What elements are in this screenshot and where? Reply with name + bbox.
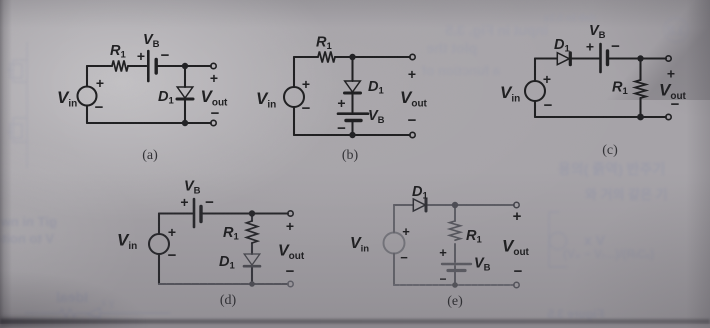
svg-text:+: + bbox=[586, 39, 594, 55]
wire bottom (a) bbox=[87, 122, 211, 124]
svg-text:−: − bbox=[286, 263, 295, 280]
svg-text:R1: R1 bbox=[466, 228, 482, 246]
svg-text:Vin: Vin bbox=[117, 231, 137, 253]
terminal top (c) bbox=[666, 56, 671, 61]
node top (c) bbox=[637, 55, 643, 61]
diode D1 (a) bbox=[177, 87, 193, 98]
resistor R1 (e) bbox=[450, 221, 461, 240]
svg-text:+: + bbox=[302, 76, 310, 92]
battery VB (a) bbox=[147, 51, 150, 81]
svg-text:Vout: Vout bbox=[659, 81, 687, 103]
terminal bottom (b) bbox=[410, 132, 415, 137]
terminal top (d) bbox=[288, 211, 293, 216]
node top (d) bbox=[249, 210, 255, 216]
svg-text:+: + bbox=[96, 75, 104, 91]
bleed text top-right mirrored bbox=[421, 13, 688, 78]
wire left rail (c) bbox=[534, 59, 536, 118]
svg-text:+: + bbox=[137, 48, 145, 64]
svg-text:+: + bbox=[439, 245, 447, 260]
svg-text:giT ni nwode: giT ni nwode bbox=[0, 214, 57, 229]
wire left rail (b) bbox=[293, 57, 295, 135]
svg-text:−: − bbox=[408, 112, 417, 129]
wire bottom (d) bbox=[159, 283, 288, 285]
svg-text:R1: R1 bbox=[612, 80, 628, 98]
svg-text:−: − bbox=[95, 99, 104, 116]
svg-text:D1: D1 bbox=[368, 79, 384, 97]
terminal top (e) bbox=[514, 202, 519, 207]
voltage source Vin (c) bbox=[525, 81, 545, 101]
bleed circuit top-left bbox=[7, 42, 27, 168]
svg-text:Vin: Vin bbox=[350, 235, 369, 255]
node bottom (a) bbox=[182, 120, 188, 126]
svg-text:−: − bbox=[161, 47, 170, 64]
wire R1-VB branch (e) bbox=[454, 205, 456, 285]
node top (a) bbox=[182, 63, 188, 69]
svg-text:+: + bbox=[210, 70, 218, 86]
terminal top (b) bbox=[410, 54, 415, 59]
svg-text:input in Fig. 3.5: input in Fig. 3.5 bbox=[445, 22, 548, 38]
svg-text:D1: D1 bbox=[412, 184, 428, 202]
svg-text:−: − bbox=[205, 194, 214, 211]
svg-text:R1: R1 bbox=[110, 43, 126, 61]
svg-text:−: − bbox=[544, 97, 553, 114]
svg-text:−: − bbox=[168, 247, 177, 264]
svg-text:Vin: Vin bbox=[500, 83, 520, 105]
svg-text:(d): (d) bbox=[220, 293, 237, 308]
node top (e) bbox=[452, 202, 458, 208]
wire top (b) bbox=[294, 56, 410, 58]
svg-text:D1: D1 bbox=[554, 37, 570, 55]
battery VB (d) bbox=[193, 199, 196, 227]
bleed circuit bottom-left bbox=[25, 298, 170, 318]
svg-text:D1: D1 bbox=[158, 89, 174, 107]
wire middle branch (b) bbox=[351, 57, 353, 135]
svg-text:+: + bbox=[286, 218, 294, 234]
svg-text:(e): (e) bbox=[447, 294, 463, 309]
wire top (e) bbox=[394, 204, 514, 206]
wire top (c) bbox=[535, 57, 666, 59]
svg-text:a function of: a function of bbox=[421, 63, 500, 78]
terminal bottom (d) bbox=[288, 281, 293, 286]
svg-text:−: − bbox=[439, 272, 446, 286]
node bottom (c) bbox=[637, 114, 644, 121]
svg-text:VB: VB bbox=[589, 23, 606, 41]
svg-text:plot the: plot the bbox=[426, 40, 477, 56]
diode D1 (c) bbox=[557, 53, 569, 65]
diode D1 (b) bbox=[345, 81, 361, 92]
svg-text:Vout: Vout bbox=[400, 88, 428, 110]
svg-text:+: + bbox=[337, 95, 345, 111]
svg-text:V to noiton: V to noiton bbox=[0, 231, 54, 246]
svg-text:+: + bbox=[168, 224, 176, 240]
svg-text:D1: D1 bbox=[219, 254, 235, 272]
svg-text:(a): (a) bbox=[142, 148, 158, 163]
svg-text:VB: VB bbox=[368, 108, 385, 126]
svg-text:−: − bbox=[337, 120, 346, 137]
resistor R1 (b) bbox=[318, 52, 335, 63]
wire D1 branch (a) bbox=[184, 66, 186, 123]
wire bottom (c) bbox=[535, 116, 666, 118]
voltage source Vin (b) bbox=[284, 87, 304, 107]
node bottom (d) bbox=[249, 281, 255, 287]
svg-text:Vin: Vin bbox=[256, 89, 276, 111]
wire left rail (d) bbox=[158, 214, 160, 285]
svg-text:Ideal: Ideal bbox=[56, 289, 88, 305]
svg-text:(V₀ − Vᵣ...)/(RₗCₑ): (V₀ − Vᵣ...)/(RₗCₑ) bbox=[563, 247, 654, 261]
node bottom (e) bbox=[452, 282, 458, 288]
battery VB (e) bbox=[442, 263, 471, 265]
voltage source Vin (e) bbox=[384, 233, 405, 254]
diode D1 (d) bbox=[244, 254, 260, 265]
svg-text:dəb to 5.1a: dəb to 5.1a bbox=[543, 13, 596, 24]
wire bottom (e) bbox=[394, 284, 514, 286]
wire left rail (a) bbox=[86, 66, 88, 123]
bleed text right-middle bbox=[547, 161, 668, 321]
battery VB (c) bbox=[599, 44, 602, 72]
svg-text:−: − bbox=[211, 105, 220, 122]
terminal bottom (e) bbox=[514, 282, 519, 287]
terminal top (a) bbox=[211, 63, 216, 68]
top-right page-curl shade bbox=[580, 0, 710, 100]
bottom-left dark corner strip bbox=[0, 317, 150, 328]
battery VB (b) bbox=[338, 112, 368, 115]
svg-text:+: + bbox=[513, 208, 522, 225]
resistor R1 (d) bbox=[247, 221, 258, 243]
node top (b) bbox=[349, 54, 355, 60]
svg-text:+: + bbox=[408, 66, 416, 82]
svg-text:+: + bbox=[667, 66, 675, 82]
svg-text:x V: x V bbox=[584, 232, 606, 248]
svg-text:Vout: Vout bbox=[201, 87, 229, 109]
bleed circuit right-middle bbox=[549, 212, 567, 267]
voltage source Vin (d) bbox=[149, 234, 169, 254]
bottom dark band bbox=[0, 319, 710, 324]
diode D1 (e) bbox=[413, 199, 425, 211]
svg-text:R1: R1 bbox=[316, 35, 332, 53]
wire left rail (e) bbox=[393, 205, 395, 285]
svg-text:Vout: Vout bbox=[278, 243, 305, 263]
bleed text left-middle mirrored bbox=[0, 214, 88, 305]
wire top (a) bbox=[87, 65, 211, 67]
svg-text:−: − bbox=[400, 250, 408, 265]
svg-text:R1: R1 bbox=[223, 225, 239, 243]
svg-text:와 거의 같은 기: 와 거의 같은 기 bbox=[585, 187, 668, 202]
wire bottom (b) bbox=[294, 134, 410, 136]
resistor R1 (c) bbox=[635, 80, 646, 98]
svg-text:+: + bbox=[402, 224, 410, 239]
svg-text:Vin: Vin bbox=[57, 88, 77, 110]
svg-text:VB: VB bbox=[474, 256, 491, 274]
svg-text:Vout: Vout bbox=[502, 237, 530, 259]
svg-text:(b): (b) bbox=[342, 148, 359, 163]
svg-text:ɣ x: ɣ x bbox=[101, 298, 114, 309]
wire top (d) bbox=[159, 212, 288, 214]
wire R1 branch (c) bbox=[639, 59, 641, 118]
svg-text:−: − bbox=[302, 100, 311, 117]
svg-text:−: − bbox=[514, 263, 523, 280]
terminal bottom (a) bbox=[211, 120, 216, 125]
svg-text:VB: VB bbox=[184, 179, 201, 197]
svg-text:+: + bbox=[543, 71, 551, 87]
svg-text:용의( 즑역) 반주기: 용의( 즑역) 반주기 bbox=[558, 161, 665, 177]
voltage source Vin (a) bbox=[78, 87, 97, 106]
wire R1-D1 branch (d) bbox=[251, 214, 253, 285]
terminal bottom (c) bbox=[666, 114, 671, 119]
node bottom (b) bbox=[349, 132, 355, 138]
svg-text:(c): (c) bbox=[602, 143, 618, 158]
svg-text:+: + bbox=[180, 194, 188, 210]
svg-text:−: − bbox=[611, 38, 620, 55]
resistor R1 (a) bbox=[112, 61, 128, 72]
svg-text:VB: VB bbox=[143, 32, 160, 50]
svg-text:−: − bbox=[671, 96, 680, 113]
svg-text:S.£: S.£ bbox=[666, 23, 686, 38]
